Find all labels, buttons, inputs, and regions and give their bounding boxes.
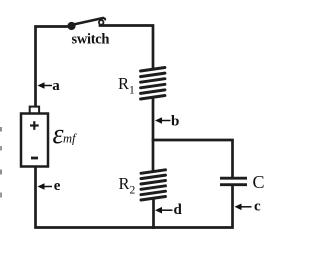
svg-text:2: 2 — [130, 185, 136, 197]
svg-text:1: 1 — [129, 85, 135, 97]
svg-text:C: C — [253, 172, 265, 192]
svg-text:c: c — [254, 199, 261, 215]
svg-text:a: a — [52, 78, 60, 94]
svg-text:mf: mf — [63, 132, 77, 146]
svg-text:b: b — [171, 114, 179, 130]
svg-text:switch: switch — [72, 32, 110, 48]
svg-text:R: R — [118, 74, 129, 93]
svg-text:R: R — [119, 174, 130, 193]
svg-text:ε: ε — [53, 119, 64, 150]
svg-text:d: d — [174, 202, 183, 218]
svg-text:e: e — [54, 178, 61, 194]
